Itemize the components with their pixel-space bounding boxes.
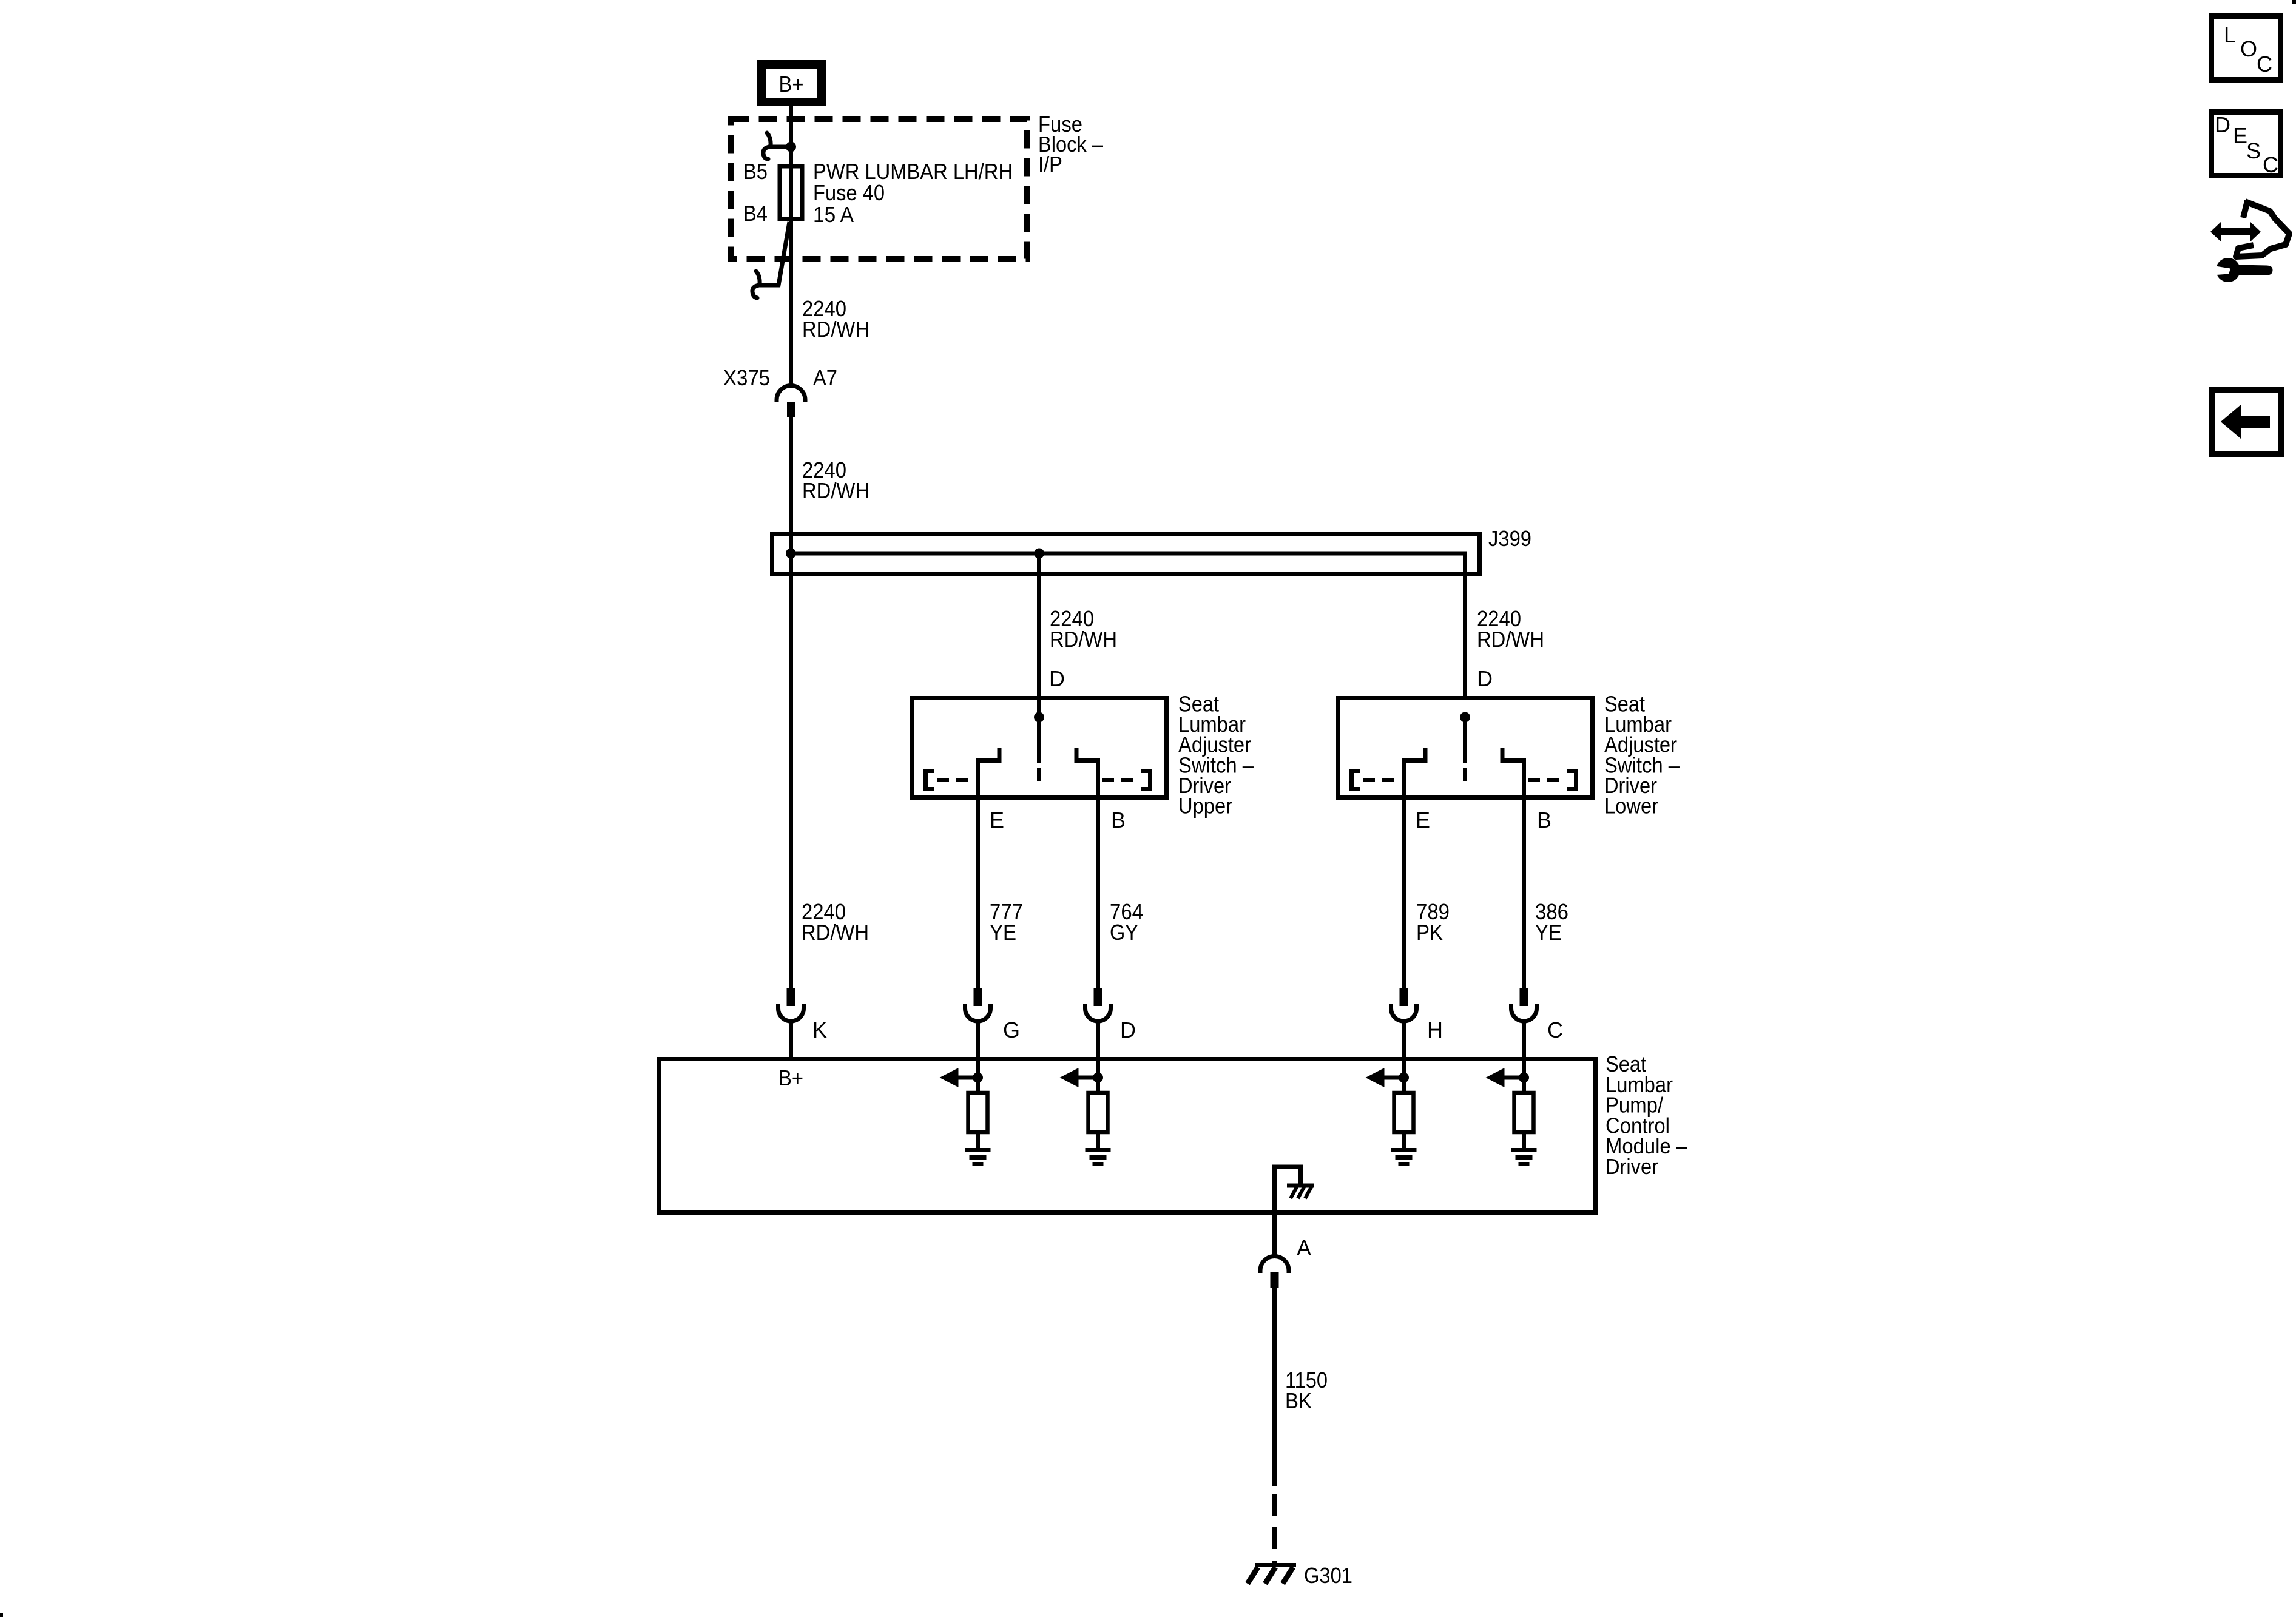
wire label 2240 RD/WH (module feed): [802, 899, 869, 945]
svg-text:RD/WH: RD/WH: [802, 478, 869, 503]
switch common contact (pin D): [1034, 712, 1044, 782]
wire label 1150 BK: [1285, 1368, 1328, 1413]
svg-text:B+: B+: [778, 1065, 803, 1090]
svg-text:B4: B4: [743, 201, 768, 226]
ground G301: [1248, 1565, 1296, 1584]
junction node at fuse terminal B5: [786, 142, 796, 152]
fuse block name label: [1038, 112, 1103, 177]
module channel at x=2313: sense arrow, coil, internal ground: [1366, 1061, 1417, 1164]
svg-text:PK: PK: [1416, 920, 1443, 945]
svg-text:J399: J399: [1488, 526, 1531, 551]
wire 777 YE (upper E to module G): [976, 800, 980, 988]
svg-text:B+: B+: [779, 72, 804, 96]
wire 386 YE (lower B to module C): [1522, 800, 1526, 988]
module internal chassis ground: [1275, 1167, 1314, 1215]
svg-text:G301: G301: [1304, 1563, 1352, 1588]
wire 1150 BK (dashed to ground): [1272, 1494, 1277, 1567]
icon DESC box: [2212, 112, 2281, 178]
connector pin G (module): [965, 988, 991, 1059]
svg-text:S: S: [2246, 138, 2261, 163]
detent bracket right: [1567, 771, 1576, 789]
svg-text:Upper: Upper: [1178, 794, 1232, 819]
switch contact B: [1502, 748, 1524, 800]
svg-text:H: H: [1427, 1018, 1443, 1042]
junction node (main feed on bus): [786, 549, 796, 559]
seat lumbar adjuster switch box (Upper): [913, 698, 1167, 798]
page corner mark (bottom left): [0, 1613, 3, 1617]
wire label 789 PK: [1416, 899, 1450, 945]
junction node (upper switch tap): [1034, 549, 1044, 559]
svg-text:Driver: Driver: [1606, 1154, 1658, 1179]
svg-text:C: C: [1547, 1018, 1563, 1042]
detent dashes left: [1363, 778, 1398, 782]
fuse value label: [813, 159, 1013, 227]
svg-text:C: C: [2257, 52, 2272, 76]
module channel at x=2511: sense arrow, coil, internal ground: [1486, 1061, 1537, 1164]
svg-text:A: A: [1297, 1235, 1311, 1260]
battery terminal B+: [757, 60, 826, 106]
switch name label (Lower): [1604, 692, 1680, 819]
wire label 2240 RD/WH (upper drop): [1050, 606, 1117, 652]
seat lumbar adjuster switch box (Lower): [1339, 698, 1593, 798]
wire label 386 YE: [1535, 899, 1568, 945]
wire 2240 RD/WH to upper switch pin D: [1037, 553, 1041, 717]
svg-text:E: E: [2233, 123, 2247, 148]
terminal clip B4: [752, 271, 760, 298]
svg-text:GY: GY: [1110, 920, 1138, 945]
wire 2240 RD/WH from X375 to module pin K: [789, 417, 793, 988]
connector pin A: [1260, 1256, 1289, 1288]
svg-text:X375: X375: [723, 365, 770, 390]
svg-text:D: D: [1120, 1018, 1136, 1042]
connector X375 pin A7: [777, 386, 805, 418]
svg-text:Fuse 40: Fuse 40: [813, 180, 885, 205]
wire 789 PK (lower E to module H): [1402, 800, 1406, 988]
wire label 2240 RD/WH (lower drop): [1477, 606, 1544, 652]
switch common contact (pin D): [1460, 712, 1470, 782]
icon connector/tool (double arrow): [2210, 221, 2261, 242]
detent dashes right: [1102, 778, 1137, 782]
svg-text:B5: B5: [743, 159, 768, 184]
wire label 777 YE: [990, 899, 1023, 945]
svg-text:C: C: [2263, 152, 2278, 177]
wire label 2240 RD/WH (fuse output): [802, 296, 869, 342]
svg-text:D: D: [1049, 666, 1065, 691]
svg-text:E: E: [1416, 808, 1430, 832]
svg-text:O: O: [2240, 36, 2257, 61]
svg-text:D: D: [1477, 666, 1493, 691]
svg-text:E: E: [990, 808, 1004, 832]
svg-text:L: L: [2224, 22, 2236, 47]
wire 1150 BK: [1272, 1288, 1277, 1486]
fuse F40 body: [780, 166, 802, 219]
svg-text:RD/WH: RD/WH: [802, 920, 869, 945]
detent bracket left: [1352, 771, 1361, 789]
switch contact E: [978, 748, 1000, 800]
svg-text:B: B: [1111, 808, 1126, 832]
icon connector/tool (terminal outline): [2236, 201, 2289, 257]
connector pin C (module): [1511, 988, 1537, 1059]
icon LOC box: [2212, 16, 2281, 80]
splice pack J399 box: [772, 535, 1480, 575]
module channel at x=1611: sense arrow, coil, internal ground: [940, 1061, 991, 1164]
wire 2240 RD/WH from B+ through fuse to X375: [789, 106, 793, 385]
module name label: [1606, 1052, 1687, 1179]
wire 764 GY (upper B to module D): [1096, 800, 1100, 988]
detent dashes left: [937, 778, 972, 782]
svg-text:RD/WH: RD/WH: [802, 317, 869, 342]
seat lumbar pump/control module box: [660, 1059, 1596, 1213]
svg-text:I/P: I/P: [1038, 152, 1062, 177]
svg-text:YE: YE: [990, 920, 1016, 945]
svg-text:Lower: Lower: [1604, 794, 1658, 819]
svg-text:B: B: [1537, 808, 1551, 832]
svg-text:RD/WH: RD/WH: [1477, 627, 1544, 652]
svg-text:15 A: 15 A: [813, 202, 854, 227]
switch contact B: [1076, 748, 1098, 800]
wire module pin A: [1272, 1215, 1277, 1257]
icon connector/tool (wrench): [2212, 258, 2273, 282]
connector pin H (module): [1391, 988, 1417, 1059]
wire label 2240 RD/WH (below X375): [802, 457, 869, 503]
svg-text:D: D: [2215, 112, 2230, 137]
detent dashes right: [1528, 778, 1563, 782]
svg-text:K: K: [812, 1018, 827, 1042]
switch contact E: [1404, 748, 1426, 800]
switch name label (Upper): [1178, 692, 1254, 819]
connector pin D (module): [1086, 988, 1111, 1059]
svg-text:BK: BK: [1285, 1388, 1312, 1413]
svg-text:G: G: [1003, 1018, 1020, 1042]
detent bracket left: [926, 771, 935, 789]
J399 bus bar: [791, 553, 1465, 696]
wire label 764 GY: [1110, 899, 1143, 945]
fuse block I/P outline (dashed): [731, 120, 1027, 259]
detent bracket right: [1141, 771, 1150, 789]
connector pin K (module): [778, 988, 804, 1059]
module channel at x=1809: sense arrow, coil, internal ground: [1060, 1061, 1111, 1164]
icon back arrow box: [2212, 390, 2281, 454]
svg-text:A7: A7: [813, 365, 837, 390]
page corner mark (top right): [2292, 0, 2296, 4]
svg-text:RD/WH: RD/WH: [1050, 627, 1117, 652]
terminal B4 lead (diagonal): [760, 222, 789, 285]
svg-text:YE: YE: [1535, 920, 1562, 945]
terminal clip B5: [763, 133, 789, 159]
